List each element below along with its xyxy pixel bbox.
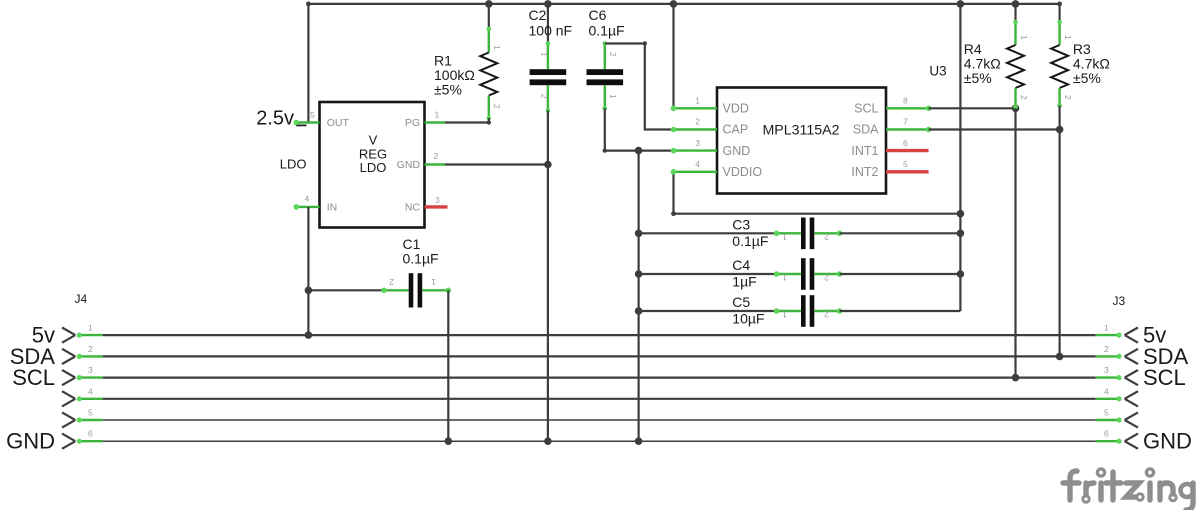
svg-text:±5%: ±5%	[434, 82, 462, 98]
svg-text:LDO: LDO	[360, 160, 387, 175]
svg-text:2: 2	[824, 232, 829, 242]
pin 4 IN	[294, 194, 320, 210]
junction R4-SCL row	[1012, 374, 1020, 382]
capacitor C4	[639, 257, 961, 290]
svg-text:1: 1	[782, 232, 787, 242]
wire R4 to SCL row	[1014, 108, 1016, 377]
junction C2-LDO GND	[544, 161, 552, 169]
junction rail-R1	[485, 0, 493, 8]
junction x960-C4	[957, 270, 965, 278]
wire row6 GND	[103, 440, 1096, 442]
connector J3 pin 5	[1096, 408, 1138, 428]
svg-text:OUT: OUT	[327, 117, 350, 129]
svg-text:2: 2	[434, 151, 439, 161]
connector J3 pin 6	[1096, 429, 1138, 449]
svg-text:5: 5	[88, 408, 93, 418]
fritzing logo	[1063, 469, 1194, 510]
resistor R1	[434, 4, 502, 123]
wire 2.5v top rail	[308, 4, 1059, 123]
junction SCL-R4	[1012, 105, 1020, 113]
svg-text:1: 1	[695, 96, 700, 106]
pin 8 SCL	[886, 96, 931, 112]
svg-text:C6: C6	[589, 7, 607, 23]
pin 2 GND	[425, 151, 446, 165]
svg-text:1: 1	[782, 310, 787, 320]
svg-text:INT2: INT2	[851, 165, 878, 179]
svg-text:±5%: ±5%	[1073, 70, 1101, 86]
wire IN down to 5v row	[307, 207, 309, 335]
svg-text:0.1µF: 0.1µF	[403, 251, 439, 267]
svg-text:SDA: SDA	[853, 123, 879, 137]
svg-text:1: 1	[608, 94, 618, 99]
svg-text:1µF: 1µF	[732, 274, 756, 290]
svg-text:1: 1	[492, 45, 502, 50]
svg-text:0.1µF: 0.1µF	[732, 233, 768, 249]
junction R3-SDA row	[1056, 353, 1064, 361]
wire C6 bottom to GND net	[605, 108, 639, 150]
capacitor C6	[587, 7, 625, 111]
capacitor C2	[529, 4, 573, 113]
svg-text:4: 4	[695, 159, 700, 169]
svg-text:2: 2	[492, 104, 502, 109]
pin 4 VDDIO	[671, 159, 717, 175]
svg-text:6: 6	[903, 138, 908, 148]
wire row4	[103, 398, 1096, 400]
op-amp U3 MPL3115A2	[717, 63, 947, 193]
pin 5 INT2	[886, 159, 929, 172]
junction SDA-R3	[1056, 126, 1064, 134]
svg-text:C2: C2	[529, 7, 547, 23]
svg-text:2: 2	[824, 273, 829, 283]
junction x960-VDDIO	[957, 210, 965, 218]
svg-text:SCL: SCL	[854, 102, 878, 116]
junction GND-C5	[635, 307, 643, 315]
connector J3 pin 2	[1096, 344, 1138, 364]
connector J3 pin 1	[1096, 323, 1138, 343]
svg-text:NC: NC	[405, 202, 421, 214]
pin 6 INT1	[886, 138, 929, 151]
svg-text:4: 4	[88, 386, 93, 396]
svg-text:V: V	[369, 133, 378, 148]
svg-text:2: 2	[695, 117, 700, 127]
junction GND row-C2	[544, 437, 552, 445]
svg-text:8: 8	[903, 96, 908, 106]
connector J4 pin 4	[62, 386, 103, 406]
svg-text:1: 1	[540, 52, 550, 57]
svg-text:5: 5	[1104, 408, 1109, 418]
connector J3 pin 4	[1096, 386, 1138, 406]
svg-text:GND: GND	[1143, 429, 1192, 454]
svg-text:CAP: CAP	[723, 123, 749, 137]
svg-text:2: 2	[1019, 95, 1029, 100]
wire VDD vertical	[672, 4, 674, 108]
capacitor C5	[639, 294, 961, 327]
pin 5 OUT	[294, 110, 320, 125]
wire x960 vertical	[959, 4, 961, 311]
connector J4 pin 5	[62, 408, 103, 428]
junction GND row-C1	[445, 437, 453, 445]
junction x960-C3	[957, 230, 965, 238]
junction GND-C3	[635, 230, 643, 238]
svg-text:VDDIO: VDDIO	[723, 165, 763, 179]
pin 2 CAP	[671, 117, 717, 133]
wire C6 top to CAP pin	[605, 44, 674, 130]
capacitor C3	[639, 216, 961, 249]
capacitor C1	[308, 236, 451, 308]
svg-text:GND: GND	[6, 429, 55, 454]
svg-text:5: 5	[310, 110, 315, 120]
svg-text:1: 1	[1104, 323, 1109, 333]
svg-text:1: 1	[88, 323, 93, 333]
svg-text:C4: C4	[732, 257, 750, 273]
svg-text:±5%: ±5%	[964, 70, 992, 86]
svg-text:MPL3115A2: MPL3115A2	[762, 122, 839, 138]
svg-text:2.5v: 2.5v	[256, 108, 294, 130]
junction GND-U3	[635, 147, 643, 155]
svg-text:6: 6	[1104, 429, 1109, 439]
svg-text:4: 4	[305, 194, 310, 204]
svg-text:PG: PG	[405, 117, 420, 129]
junction rail-C2	[544, 0, 552, 8]
voltage regulator U LDO	[320, 102, 425, 228]
junction rail-VDD	[670, 0, 678, 8]
svg-text:2: 2	[1104, 344, 1109, 354]
svg-text:3: 3	[88, 365, 93, 375]
resistor R3	[1051, 4, 1110, 108]
svg-text:J4: J4	[75, 292, 88, 306]
svg-text:1: 1	[435, 110, 440, 120]
svg-text:1: 1	[431, 277, 436, 287]
svg-text:GND: GND	[397, 159, 421, 171]
connector J4 pin 3	[62, 365, 103, 385]
connector J4 pin 2	[62, 344, 103, 364]
wire C1 down to GND row	[447, 290, 449, 441]
wire SCL to R4	[929, 107, 1016, 109]
svg-text:0.1µF: 0.1µF	[589, 23, 625, 39]
svg-text:6: 6	[88, 429, 93, 439]
svg-text:3: 3	[435, 195, 440, 205]
svg-text:GND: GND	[723, 144, 751, 158]
svg-text:2: 2	[824, 310, 829, 320]
junction GND row-GNDnet	[635, 437, 643, 445]
wire R3 to SDA row	[1058, 106, 1060, 357]
junction rail-x960	[957, 0, 965, 8]
svg-text:U3: U3	[929, 63, 946, 78]
connector J4 pin 1	[62, 323, 103, 343]
svg-text:2: 2	[1063, 95, 1073, 100]
svg-text:IN: IN	[327, 202, 338, 214]
wire row1 5v	[103, 334, 1096, 336]
junction IN-5v row	[305, 331, 313, 339]
svg-text:2: 2	[540, 94, 550, 99]
wire row3 SCL	[103, 377, 1096, 379]
junction GND-C4	[635, 270, 643, 278]
svg-text:100 nF: 100 nF	[529, 23, 573, 39]
wire GND to C2	[445, 163, 548, 165]
svg-text:3: 3	[1104, 365, 1109, 375]
junction IN-C1	[305, 287, 313, 295]
svg-text:2: 2	[608, 52, 618, 57]
svg-text:2: 2	[88, 344, 93, 354]
svg-text:1: 1	[782, 273, 787, 283]
svg-text:SCL: SCL	[12, 365, 55, 390]
svg-text:C3: C3	[732, 216, 750, 232]
wire row5	[103, 419, 1096, 421]
pin 3 NC	[425, 195, 448, 207]
wire VDDIO return	[674, 172, 961, 214]
svg-text:3: 3	[695, 138, 700, 148]
svg-text:2: 2	[389, 277, 394, 287]
pin 1 PG	[425, 110, 446, 123]
svg-text:LDO: LDO	[280, 156, 307, 171]
svg-text:1: 1	[1019, 35, 1029, 40]
wire C2 bottom to GND row	[547, 111, 549, 442]
pin 3 GND	[639, 138, 717, 154]
connector J3 pin 3	[1096, 365, 1138, 385]
pin 7 SDA	[886, 117, 931, 133]
wire row2 SDA	[103, 355, 1096, 357]
svg-text:1: 1	[1063, 35, 1073, 40]
svg-text:5: 5	[903, 159, 908, 169]
pin 1 VDD	[671, 96, 717, 112]
svg-text:J3: J3	[1113, 294, 1126, 308]
wire PG to R1	[445, 121, 489, 123]
svg-text:7: 7	[903, 117, 908, 127]
svg-text:VDD: VDD	[723, 102, 749, 116]
svg-text:SCL: SCL	[1143, 365, 1186, 390]
svg-text:4: 4	[1104, 386, 1109, 396]
svg-text:10µF: 10µF	[732, 311, 764, 327]
resistor R4	[964, 4, 1029, 109]
junction rail-R4	[1012, 0, 1020, 8]
wire SDA to R3	[929, 128, 1060, 130]
svg-text:C5: C5	[732, 294, 750, 310]
wire GND net vertical	[637, 151, 639, 442]
svg-text:INT1: INT1	[851, 144, 878, 158]
connector J4 pin 6	[62, 429, 103, 449]
